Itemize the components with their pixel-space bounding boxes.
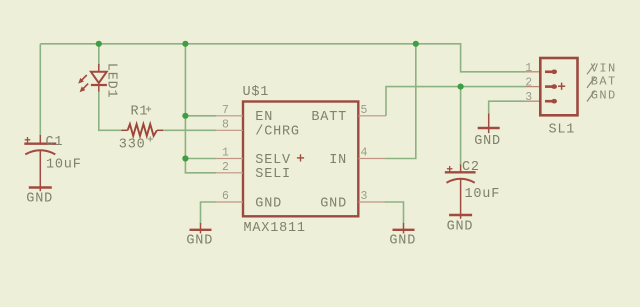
wire SL1 pin3 to ground: [489, 101, 525, 114]
svg-text:2: 2: [525, 77, 532, 90]
svg-text:BATT: BATT: [311, 110, 347, 125]
svg-text:SL1: SL1: [549, 123, 576, 138]
svg-text:1: 1: [525, 62, 532, 75]
svg-text:GND: GND: [474, 134, 501, 149]
junction IN drop on VIN: [413, 41, 419, 47]
ground under SL1 pin 3: [474, 114, 501, 150]
svg-text:2: 2: [222, 161, 229, 174]
svg-text:5: 5: [361, 104, 368, 117]
junction pin7 tap: [182, 113, 188, 119]
wire LED cathode to R1: [99, 90, 122, 130]
capacitor C1: [24, 135, 56, 191]
svg-text:U$1: U$1: [243, 85, 270, 100]
net label VIN: [587, 61, 617, 75]
svg-text:SELI: SELI: [255, 167, 291, 182]
svg-text:4: 4: [361, 147, 368, 160]
svg-text:GND: GND: [186, 233, 213, 248]
svg-text:R1: R1: [131, 105, 149, 120]
svg-text:GND: GND: [447, 220, 474, 235]
ground under C1: [29, 186, 52, 188]
junction C2 branch on BATT: [458, 84, 464, 90]
IC origin cross: [297, 154, 304, 161]
IC pin stubs right: [358, 116, 386, 202]
net label GND: [587, 88, 617, 102]
svg-text:330: 330: [119, 138, 146, 153]
origin cross 330: [148, 136, 153, 141]
SL1 pad 1: [545, 70, 557, 75]
svg-text:GND: GND: [389, 233, 416, 248]
svg-text:/CHRG: /CHRG: [255, 125, 300, 140]
IC U$1 MAX1811 box: [243, 102, 358, 217]
wire BATT branch to C2: [460, 87, 462, 165]
connector SL1 box: [540, 58, 577, 115]
wire VIN left rail to C1: [39, 44, 41, 136]
SL1 polarity plus: [558, 83, 565, 90]
svg-text:10uF: 10uF: [46, 157, 82, 172]
svg-text:EN: EN: [255, 110, 273, 125]
ground under IC pin 3: [389, 223, 416, 248]
svg-text:LED1: LED1: [104, 63, 119, 99]
svg-text:3: 3: [361, 190, 368, 203]
wire pin 6 to ground: [201, 202, 217, 224]
wire to pin 1: [185, 158, 216, 160]
junction IC bus on VIN: [182, 41, 188, 47]
wire IN net to pin 4: [386, 44, 416, 159]
svg-text:10uF: 10uF: [465, 187, 501, 202]
junction LED anode on VIN: [96, 41, 102, 47]
IC pin stubs left: [216, 116, 243, 202]
wire vertical bus to IC left pins: [185, 44, 216, 173]
ground under IC pin 6: [186, 223, 213, 248]
svg-text:GND: GND: [320, 196, 347, 211]
capacitor C2: [445, 165, 476, 219]
resistor R1: [122, 124, 164, 136]
svg-text:8: 8: [222, 118, 229, 131]
LED LED1: [78, 64, 107, 92]
wire IC pin3 to ground: [385, 202, 404, 224]
origin cross R1: [146, 106, 151, 111]
wire BATT pin5 to SL1 pin2: [386, 87, 525, 116]
SL1 pin stubs: [525, 72, 540, 101]
junction pin1 tap: [182, 155, 188, 161]
svg-text:GND: GND: [26, 191, 53, 206]
svg-text:MAX1811: MAX1811: [244, 221, 306, 236]
wire R1 to pin 8: [162, 129, 216, 131]
svg-text:GND: GND: [255, 196, 282, 211]
net label BAT: [587, 75, 617, 89]
wire to pin 7: [185, 115, 216, 117]
svg-text:1: 1: [222, 147, 229, 160]
svg-text:SELV: SELV: [255, 153, 291, 168]
wire VIN top rail: [40, 44, 525, 72]
svg-text:6: 6: [222, 190, 229, 203]
svg-text:7: 7: [222, 104, 229, 117]
ground under C2: [449, 214, 472, 216]
svg-text:IN: IN: [329, 153, 347, 168]
SL1 pad 2: [545, 84, 557, 89]
svg-text:C1: C1: [46, 135, 64, 150]
svg-text:3: 3: [525, 91, 532, 104]
wire LED anode drop: [98, 44, 100, 67]
svg-text:C2: C2: [462, 160, 480, 175]
SL1 pad 3: [545, 99, 557, 104]
